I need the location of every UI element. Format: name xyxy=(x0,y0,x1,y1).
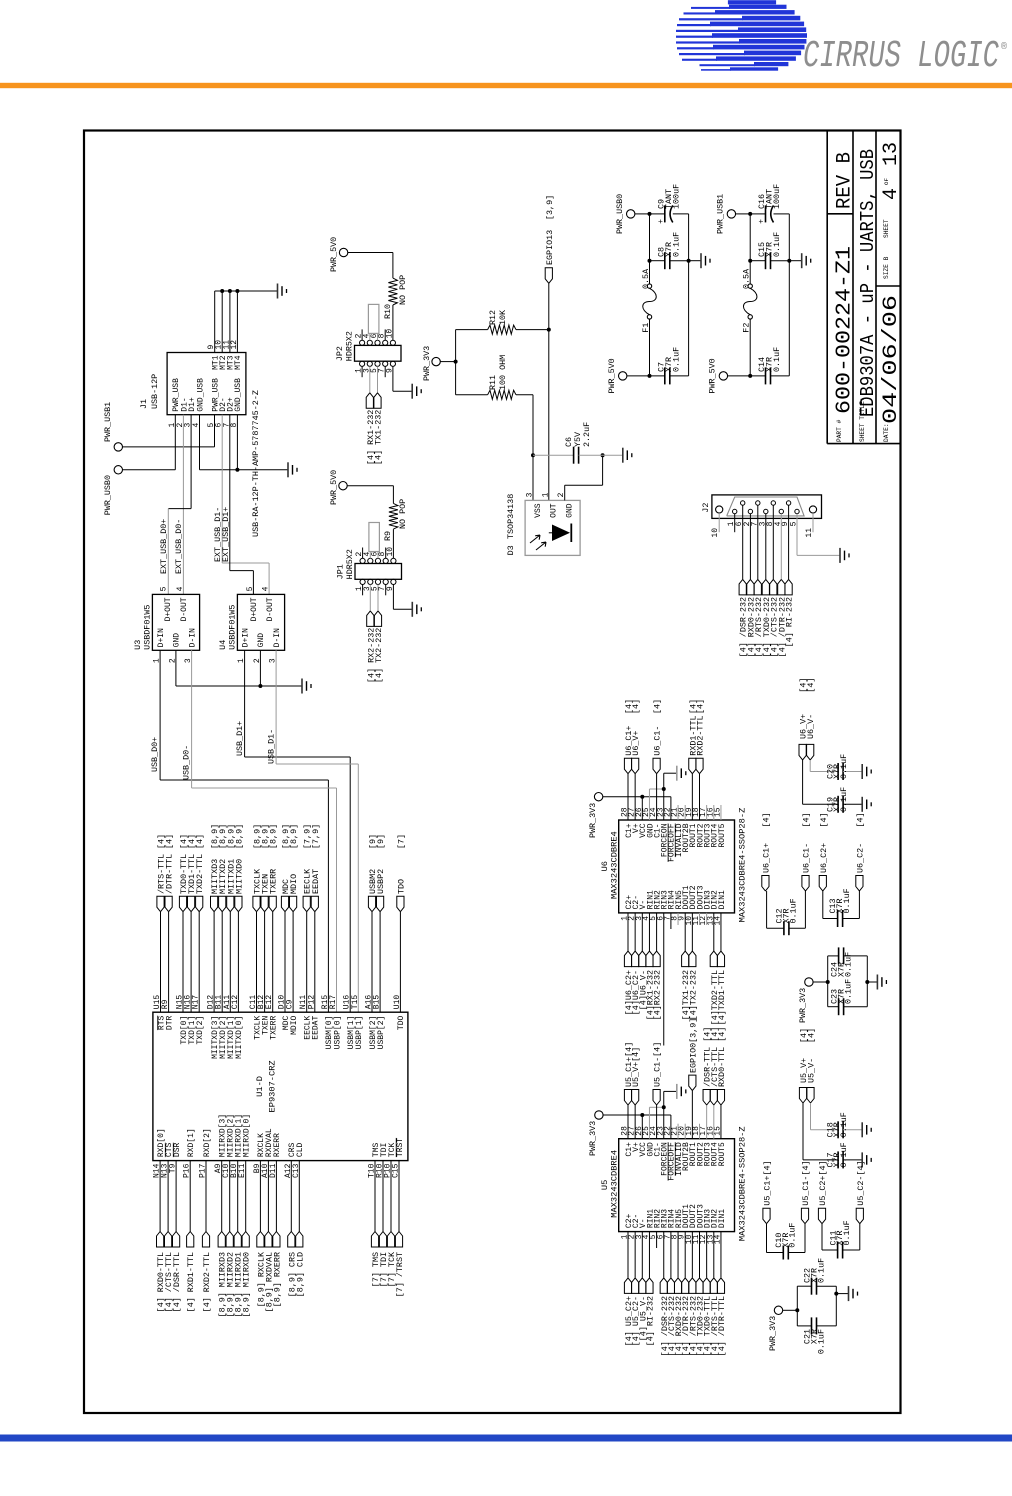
capacitor C7 X7R 0.1uF xyxy=(627,375,665,377)
JP2 pin7 no-connect stub xyxy=(384,366,386,377)
svg-text:DSR: DSR xyxy=(173,1142,182,1157)
node U6_V- stub (cap side) xyxy=(807,744,814,760)
filter U3 USBDF01W5 body xyxy=(152,594,199,650)
node /RTS-232 stub (U5 side) xyxy=(689,1278,696,1294)
svg-text:GND: GND xyxy=(566,503,575,518)
node MIIRXD0 stub xyxy=(242,1232,249,1248)
net U5_C1-[4] wire U5 pin24 xyxy=(656,1105,658,1139)
JP1 pin1 no-connect stub xyxy=(362,585,364,596)
capacitor C17 X7R 0.1uF (U5 V+ bypass) xyxy=(802,1103,804,1160)
node RXD0-TTL stub xyxy=(157,1232,164,1248)
svg-text:1: 1 xyxy=(541,492,550,497)
net PWR_3V3 bypass rail (U5) xyxy=(783,1309,798,1311)
svg-text:MAX3243CDBRE4: MAX3243CDBRE4 xyxy=(610,1150,620,1218)
svg-text:MIITXD0: MIITXD0 xyxy=(234,859,244,894)
svg-text:PWR_3V3: PWR_3V3 xyxy=(798,988,808,1023)
node TX1-232 stub xyxy=(374,393,381,409)
J2 pin 8 xyxy=(771,501,775,505)
node U6_C2- stub (cap side) xyxy=(856,876,863,892)
svg-text:EXT_USB_D0+: EXT_USB_D0+ xyxy=(159,519,169,574)
J2 pin 10 stub xyxy=(718,513,720,532)
svg-text:D+IN: D+IN xyxy=(157,628,166,647)
capacitor C10 X7R 0.1uF (U5 C1 flying cap) xyxy=(766,1224,768,1253)
net USB_D0+ wire U3 D+IN to U1 USBM[0] xyxy=(159,650,161,780)
JP1 pin8 no-connect stub xyxy=(385,548,387,559)
net /CTS-232 wire U5 pin7 xyxy=(670,1232,672,1278)
svg-text:[3,9]: [3,9] xyxy=(545,195,555,220)
node RXD1-TTL stub xyxy=(689,758,696,774)
wire D3 GND pin to ground net xyxy=(564,485,566,500)
J2 D-sub face trapezoid xyxy=(727,497,804,516)
ground at U5 FORCEON/GND xyxy=(664,1090,677,1092)
svg-text:MAX3243CDBRE4-SSOP28-Z: MAX3243CDBRE4-SSOP28-Z xyxy=(738,808,748,923)
wire C21/C22 ground rail xyxy=(835,1286,837,1326)
node U6_C1+ stub (cap side) xyxy=(762,876,769,892)
svg-text:PWR_3V3: PWR_3V3 xyxy=(422,346,432,381)
JP1 pin 8 xyxy=(383,558,388,563)
net TX2-232 wire JP1 pin5 to stub xyxy=(377,585,379,611)
node /DSR-232 stub xyxy=(739,579,746,595)
net TXD0-232 wire U5 pin11 xyxy=(699,1232,701,1278)
svg-text:GND: GND xyxy=(173,633,182,648)
JP2 pin2 no-connect stub xyxy=(361,329,363,340)
JP2 pin 7 xyxy=(383,361,388,366)
terminal PWR_3V3 (U5 bypass) xyxy=(774,1306,782,1314)
net RX1-232 wire U6 pin4 xyxy=(648,913,650,951)
node /DTR-232 stub (U5 side) xyxy=(682,1278,689,1294)
svg-text:J2: J2 xyxy=(701,503,711,513)
node U5_C2- stub (U5 side) xyxy=(632,1278,639,1294)
svg-text:TDO: TDO xyxy=(396,879,406,894)
svg-text:PWR_USB1: PWR_USB1 xyxy=(103,402,113,442)
U6 pin11 no-connect stub xyxy=(699,913,701,925)
svg-text:U6_C1-: U6_C1- xyxy=(653,726,663,756)
ground for J1 GND_USB xyxy=(287,462,289,477)
J2 pin 1 stub xyxy=(734,514,736,533)
node U5_V- stub (U5 side) xyxy=(639,1278,646,1294)
node RXCLK stub xyxy=(257,1232,264,1248)
svg-text:MIIRXD[0]: MIIRXD[0] xyxy=(243,1114,252,1157)
capacitor C14 X7R 0.1uF xyxy=(728,375,766,377)
svg-text:0.1uF: 0.1uF xyxy=(839,754,849,779)
rotated schematic drawing xyxy=(84,131,903,1414)
svg-text:PWR_5V0: PWR_5V0 xyxy=(329,470,339,505)
node CLD stub xyxy=(296,1232,303,1248)
svg-text:U5_C2-[4]: U5_C2-[4] xyxy=(856,1160,866,1205)
svg-text:®: ® xyxy=(1001,41,1007,53)
capacitor C20 X7R 0.1uF (U6 V- bypass) xyxy=(809,760,811,772)
JP2 pin 10 xyxy=(390,340,395,345)
svg-text:U3: U3 xyxy=(133,640,143,650)
JP1 pin2 no-connect stub xyxy=(362,548,364,559)
net TXD0-TTL wire U5 pin12 xyxy=(706,1232,708,1278)
capacitor C21 X7R 0.1uF xyxy=(797,1325,811,1327)
svg-text:[4] /DTR-TTL: [4] /DTR-TTL xyxy=(717,1296,727,1356)
wire U5 VCC pin26 xyxy=(641,1115,643,1139)
node TDI stub xyxy=(379,1232,386,1248)
terminal PWR_5V0 (F1 circuit) xyxy=(619,372,627,380)
svg-text:U4: U4 xyxy=(218,640,228,650)
U5 pin18 no-connect stub xyxy=(699,1124,701,1139)
svg-text:4: 4 xyxy=(880,188,903,200)
svg-text:USBDF01W5: USBDF01W5 xyxy=(227,605,237,650)
svg-text:U6_V+: U6_V+ xyxy=(631,731,641,756)
net RXD2-TTL wire U6 pin18 xyxy=(699,774,701,820)
U6 pin7 no-connect stub xyxy=(670,913,672,929)
node /DTR-TTL stub xyxy=(165,896,172,912)
resistor R10 (NO POP) xyxy=(388,278,397,305)
ground at J2 pin5 xyxy=(839,548,841,563)
JP2 pin 2 xyxy=(360,340,365,345)
wire U5 GND pin25 to ground xyxy=(648,1107,650,1138)
node /RTS-TTL stub xyxy=(157,896,164,912)
svg-text:10K: 10K xyxy=(498,309,508,325)
net /RTS-232 wire J2 to stub xyxy=(757,505,759,579)
terminal PWR_3V3 (U6 bypass) xyxy=(805,978,813,986)
wire PWR_3V3 to R11/R12 bus xyxy=(440,361,455,363)
svg-text:[4]: [4] xyxy=(806,678,816,693)
node TXD2-TTL stub (U6 side) xyxy=(710,951,717,967)
JP2 pin 5 xyxy=(375,361,380,366)
JP1 pin7 no-connect stub xyxy=(385,585,387,596)
svg-text:5: 5 xyxy=(246,586,255,591)
capacitor C15 X7R 0.1uF xyxy=(750,260,765,262)
wire U5 FORCEON pin23 (ground net shared with U6 RIN3) xyxy=(663,1091,665,1138)
net TX1-232 wire U6 pin9 xyxy=(684,913,686,951)
node EEDAT stub xyxy=(311,896,318,912)
svg-text:JP2: JP2 xyxy=(335,346,345,361)
wire U6 FORCEON pin23 to ground xyxy=(663,773,665,820)
capacitor C12 X7R 0.1uF (U6 C1 flying cap) xyxy=(766,891,768,928)
wire R11 to D3 VSS xyxy=(516,394,533,396)
U6 pin8 no-connect stub xyxy=(677,913,679,925)
svg-text:RXD[2]: RXD[2] xyxy=(203,1128,212,1157)
node U5_C2+ stub (cap side) xyxy=(818,1208,825,1224)
wire PWR_USB rail (F2) xyxy=(736,213,751,215)
svg-text:MAX3243CDBRE4-SSOP28-Z: MAX3243CDBRE4-SSOP28-Z xyxy=(738,1126,748,1241)
svg-text:[8,9]: [8,9] xyxy=(234,824,244,849)
node MIIRXD2 stub xyxy=(226,1232,233,1248)
svg-text:PWR_USB0: PWR_USB0 xyxy=(103,475,113,515)
J2 mounting hole 11 xyxy=(809,506,816,513)
svg-text:PWR_3V3: PWR_3V3 xyxy=(588,1121,598,1156)
svg-text:USB_D0-: USB_D0- xyxy=(182,745,192,780)
net U5_V+[4] wire U5 pin27 xyxy=(634,1105,636,1139)
wire J1 MT1-MT4 shield to ground xyxy=(214,291,216,353)
svg-text:USBP[1]: USBP[1] xyxy=(355,1016,364,1050)
U6 pin16 no-connect stub xyxy=(713,805,715,820)
svg-text:[4]TX2-232: [4]TX2-232 xyxy=(688,970,698,1020)
net /DTR-232 wire U5 pin9 xyxy=(684,1232,686,1278)
capacitor C18 X7R 0.1uF (U5 V- bypass) xyxy=(810,1103,812,1130)
node EECLK stub xyxy=(303,896,310,912)
svg-text:R11: R11 xyxy=(488,375,498,390)
svg-text:ROUT5: ROUT5 xyxy=(718,823,727,847)
svg-text:PART #: PART # xyxy=(836,419,843,442)
net U5_C2+ wire U5 pin1 xyxy=(627,1232,629,1278)
svg-text:RXD[1]: RXD[1] xyxy=(187,1128,196,1157)
JP1 pin 4 xyxy=(368,558,373,563)
svg-text:USBDF01W5: USBDF01W5 xyxy=(142,605,152,650)
net TXD0-232 wire J2 to stub xyxy=(765,514,767,580)
node EGPIO13 stub xyxy=(545,268,552,284)
svg-text:D3: D3 xyxy=(506,545,516,555)
ground at JP1 pin9 xyxy=(411,602,413,617)
node TXCLK stub xyxy=(253,896,260,912)
svg-text:USBP[2]: USBP[2] xyxy=(377,1016,386,1050)
net RX1-232 wire JP2 pin3 to stub xyxy=(369,366,371,392)
svg-text:+: + xyxy=(758,219,767,224)
node RXD1-TTL stub xyxy=(187,1232,194,1248)
net U6_C2- wire U6 pin2 xyxy=(634,913,636,951)
node TXD0-232 stub (U5 side) xyxy=(696,1278,703,1294)
ground for F2 circuit xyxy=(789,260,801,262)
svg-text:OUT: OUT xyxy=(550,503,559,518)
svg-text:0.1uF: 0.1uF xyxy=(672,232,682,257)
U5 pin20 no-connect stub xyxy=(684,1124,686,1139)
svg-text:DIN1: DIN1 xyxy=(718,890,727,909)
node /TRST stub xyxy=(395,1232,402,1248)
svg-text:U5: U5 xyxy=(600,1180,610,1190)
node TXERR stub xyxy=(269,896,276,912)
resistor R11 100 OHM xyxy=(456,394,488,396)
net RXD0-TTL [4] wire U5 pin15 xyxy=(720,1105,722,1139)
net U5_C2- wire U5 pin2 xyxy=(634,1232,636,1278)
terminal PWR_5V0 (F2 circuit) xyxy=(719,372,727,380)
net PWR_3V3 bypass rail (U6) xyxy=(813,981,828,983)
node MIIRXD3 stub xyxy=(218,1232,225,1248)
node U5_V- stub (cap side) xyxy=(807,1088,814,1104)
node RXD2-TTL stub xyxy=(696,758,703,774)
node TXD0-232 stub xyxy=(762,579,769,595)
node U5_V+[4] stub xyxy=(632,1090,639,1106)
svg-text:U6_C1-: U6_C1- xyxy=(802,843,812,873)
svg-text:TRST: TRST xyxy=(396,1138,405,1157)
JP2 pin 4 xyxy=(367,340,372,345)
node USBP2 stub xyxy=(377,896,384,912)
node /RTS-TTL stub (U5 side) xyxy=(710,1278,717,1294)
net RX2-232 wire JP1 pin3 to stub xyxy=(369,585,371,611)
svg-text:F2: F2 xyxy=(742,323,752,333)
svg-text:[4] RXD2-TTL: [4] RXD2-TTL xyxy=(202,1252,212,1312)
wire PWR_USB1 to J1 pin 5 xyxy=(123,446,215,448)
svg-text:D-OUT: D-OUT xyxy=(180,597,189,621)
net /DSR-TTL [4] wire U5 pin17 xyxy=(706,1105,708,1139)
wire R10 to PWR_5V0 xyxy=(392,253,394,279)
node U6_V- stub (U6 side) xyxy=(639,951,646,967)
net PWR_3V3 wire to U5 VCC and /FORCEOFF xyxy=(603,1114,671,1116)
net EXT_USB_D1- wire J1 pin6 to U4 D-OUT xyxy=(221,415,223,563)
node /RTS-232 stub xyxy=(754,579,761,595)
net EGPIO13 wire to D3 OUT xyxy=(548,283,550,500)
svg-text:PWR_USB0: PWR_USB0 xyxy=(615,194,625,234)
processor U1-D EP9307-CRZ body xyxy=(153,1012,408,1160)
capacitor C24 X7R 0.1uF xyxy=(828,955,839,957)
ground for U3/U4 xyxy=(301,679,303,694)
svg-text:NO POP: NO POP xyxy=(398,499,408,529)
wire R9 to PWR_5V0 xyxy=(392,486,394,504)
capacitor C23 X7R 0.1uF xyxy=(828,1006,839,1008)
svg-text:EGPIO0[3,9]: EGPIO0[3,9] xyxy=(688,1018,698,1073)
net /RTS-TTL wire U5 pin13 xyxy=(713,1232,715,1278)
net USB_D1+ wire U4 D+IN to U1 USBM[1] xyxy=(244,650,246,757)
svg-text:HDR5X2: HDR5X2 xyxy=(345,331,355,361)
svg-text:PWR_USB1: PWR_USB1 xyxy=(716,194,726,234)
svg-text:EEDAT: EEDAT xyxy=(311,869,321,894)
svg-text:10: 10 xyxy=(711,528,720,538)
svg-text:JP1: JP1 xyxy=(336,564,346,579)
terminal PWR_3V3 (U5) xyxy=(595,1111,603,1119)
svg-text:USB-12P: USB-12P xyxy=(150,374,160,409)
svg-text:U5_C1-[4]: U5_C1-[4] xyxy=(653,1042,663,1087)
svg-text:CLD: CLD xyxy=(296,1142,305,1157)
J2 pin 1 xyxy=(733,509,737,513)
svg-text:D+OUT: D+OUT xyxy=(164,597,173,621)
U6 pin12 no-connect stub xyxy=(706,913,708,925)
node /DSR-TTL stub xyxy=(173,1232,180,1248)
svg-text:13: 13 xyxy=(880,142,903,166)
svg-text:EEDAT: EEDAT xyxy=(312,1016,321,1040)
node /DSR-TTL [4] stub xyxy=(703,1090,710,1106)
node U6_V+ stub (cap side) xyxy=(799,744,806,760)
node U5_C2+ stub (U5 side) xyxy=(624,1278,631,1294)
svg-text:R10: R10 xyxy=(383,304,393,319)
svg-text:DIN1: DIN1 xyxy=(718,1209,727,1228)
ground for C17 xyxy=(861,1152,863,1167)
svg-text:T15: T15 xyxy=(351,995,360,1010)
JP1 pin 6 xyxy=(375,558,380,563)
net RIN3-ground wire U6 pin6 to U5 FORCEON xyxy=(663,913,665,1046)
header JP1 HDR5X2 body xyxy=(355,564,402,580)
net RXD0-232 wire U5 pin8 xyxy=(677,1232,679,1278)
ground for J1 mounting tabs xyxy=(277,284,279,299)
J2 pin 9 xyxy=(786,501,790,505)
svg-text:[4] TX2-232: [4] TX2-232 xyxy=(374,628,384,683)
JP1 pin 1 xyxy=(360,579,365,584)
svg-text:100uF: 100uF xyxy=(672,184,682,209)
node RI-232 stub xyxy=(785,579,792,595)
svg-text:[4] RI-232: [4] RI-232 xyxy=(785,597,795,647)
JP2 pin 3 xyxy=(367,361,372,366)
schematic sheet border frame xyxy=(84,131,901,1414)
svg-text:[4]: [4] xyxy=(819,812,829,827)
node USBM2 stub xyxy=(368,896,375,912)
svg-text:VSS: VSS xyxy=(534,503,543,518)
node /CTS-232 stub (U5 side) xyxy=(667,1278,674,1294)
svg-text:TXD2-TTL: TXD2-TTL xyxy=(195,854,205,894)
wire ground rail (F2) xyxy=(788,214,790,376)
node EGPIO0 stub xyxy=(689,1075,696,1091)
node /CTS-232 stub xyxy=(770,579,777,595)
svg-text:0.1uF: 0.1uF xyxy=(788,1223,798,1248)
svg-text:TXERR: TXERR xyxy=(270,1016,279,1040)
svg-text:[4]: [4] xyxy=(165,834,175,849)
capacitor C6 Y5V 2.2uF xyxy=(533,454,574,456)
node U6_C2- stub (U6 side) xyxy=(632,951,639,967)
svg-text:MIITXD[0]: MIITXD[0] xyxy=(235,1016,244,1059)
svg-text:0.5A: 0.5A xyxy=(742,268,752,289)
node U6_C1- stub xyxy=(653,758,660,774)
svg-text:0.5A: 0.5A xyxy=(641,268,651,289)
U6 pin15 no-connect stub xyxy=(720,805,722,820)
svg-text:USB_D1-: USB_D1- xyxy=(267,729,277,764)
svg-text:RXERR: RXERR xyxy=(273,1133,282,1157)
svg-text:OF: OF xyxy=(883,178,890,185)
node U5_C1+ stub (cap side) xyxy=(763,1208,770,1224)
JP2 pin 8 xyxy=(383,340,388,345)
node /DTR-232 stub xyxy=(778,579,785,595)
net EXT_USB_D0+ wire J1 pin3 to U3 D+OUT xyxy=(190,415,192,509)
terminal PWR_3V3 (R11/R12) xyxy=(432,357,440,365)
node TXD1-TTL stub (U6 side) xyxy=(717,951,724,967)
svg-text:U1-D: U1-D xyxy=(255,1076,265,1097)
wire U3/U4 GND pins to ground xyxy=(175,650,177,686)
svg-text:4: 4 xyxy=(262,586,271,591)
JP1 jumper shunt on pins 4,6 xyxy=(369,552,371,559)
net U6_V+ wire U6 pin27 xyxy=(634,774,636,820)
JP2 pin8 no-connect stub xyxy=(384,329,386,340)
svg-text:USB_D1+: USB_D1+ xyxy=(235,721,245,756)
connector J2 DB9 body xyxy=(712,495,822,519)
svg-text:DTR: DTR xyxy=(165,1016,174,1031)
svg-text:PWR_5V0: PWR_5V0 xyxy=(329,237,339,272)
resistor R12 10K xyxy=(456,329,488,331)
J2 pin 3 xyxy=(764,509,768,513)
node TXD2-TTL stub xyxy=(196,896,203,912)
svg-text:D+OUT: D+OUT xyxy=(250,597,259,621)
net USB_D1- wire U4 D-IN to U1 USBP[1] xyxy=(275,650,277,764)
net RI-232 wire J2 to stub xyxy=(788,505,790,579)
JP1 pin 2 xyxy=(360,558,365,563)
svg-text:[4]: [4] xyxy=(696,699,706,714)
net TXD2-TTL wire U6 pin13 xyxy=(713,913,715,951)
net U5_C1+[4] wire U5 pin28 xyxy=(627,1105,629,1139)
ground for C19 xyxy=(861,797,863,812)
svg-text:[4] RI-232: [4] RI-232 xyxy=(645,1296,655,1346)
node /CTS-TTL [4] stub xyxy=(710,1090,717,1106)
ground for F1 circuit xyxy=(689,260,701,262)
svg-text:0.1uF: 0.1uF xyxy=(839,1142,849,1167)
svg-text:CIRRUS LOGIC: CIRRUS LOGIC xyxy=(803,35,999,78)
svg-text:0.1uF: 0.1uF xyxy=(772,347,782,372)
svg-text:SIZE B: SIZE B xyxy=(883,256,890,279)
capacitor C9 TANT 100uF xyxy=(650,213,665,215)
svg-text:U5_C1-[4]: U5_C1-[4] xyxy=(801,1160,811,1205)
node MDC stub xyxy=(281,896,288,912)
svg-text:0.1uF: 0.1uF xyxy=(672,347,682,372)
svg-text:/DTR-TTL: /DTR-TTL xyxy=(165,854,175,894)
terminal PWR_USB0 (top) xyxy=(114,466,122,474)
wire JP2 pin9 to ground xyxy=(392,366,394,391)
net PWR_3V3 wire to U6 VCC and /FORCEOFF xyxy=(603,796,671,798)
node /DTR-TTL stub (U5 side) xyxy=(717,1278,724,1294)
node CRS stub xyxy=(288,1232,295,1248)
capacitor C22 X7R 0.1uF xyxy=(797,1285,811,1287)
J2 pin 7 xyxy=(756,501,760,505)
capacitor C16 TANT 100uF xyxy=(750,213,765,215)
transceiver U6 MAX3243CDBRE4 body xyxy=(619,820,735,913)
svg-text:0.1uF: 0.1uF xyxy=(817,1258,827,1283)
capacitor C19 X7R 0.1uF (U6 V+ bypass) xyxy=(802,760,804,804)
net EXT_USB_D0- wire J1 pin2 to U3 D-OUT xyxy=(182,415,184,595)
wire PWR_USB rail (F1) xyxy=(635,213,650,215)
net RX2-232 wire U6 pin5 xyxy=(656,913,658,951)
svg-text:[9]: [9] xyxy=(376,834,386,849)
node U6_C1- stub (cap side) xyxy=(802,876,809,892)
svg-text:USB_D0+: USB_D0+ xyxy=(150,737,160,772)
net U6_C1- wire U6 pin24 xyxy=(656,774,658,820)
transceiver U5 MAX3243CDBRE4 body xyxy=(619,1139,735,1232)
